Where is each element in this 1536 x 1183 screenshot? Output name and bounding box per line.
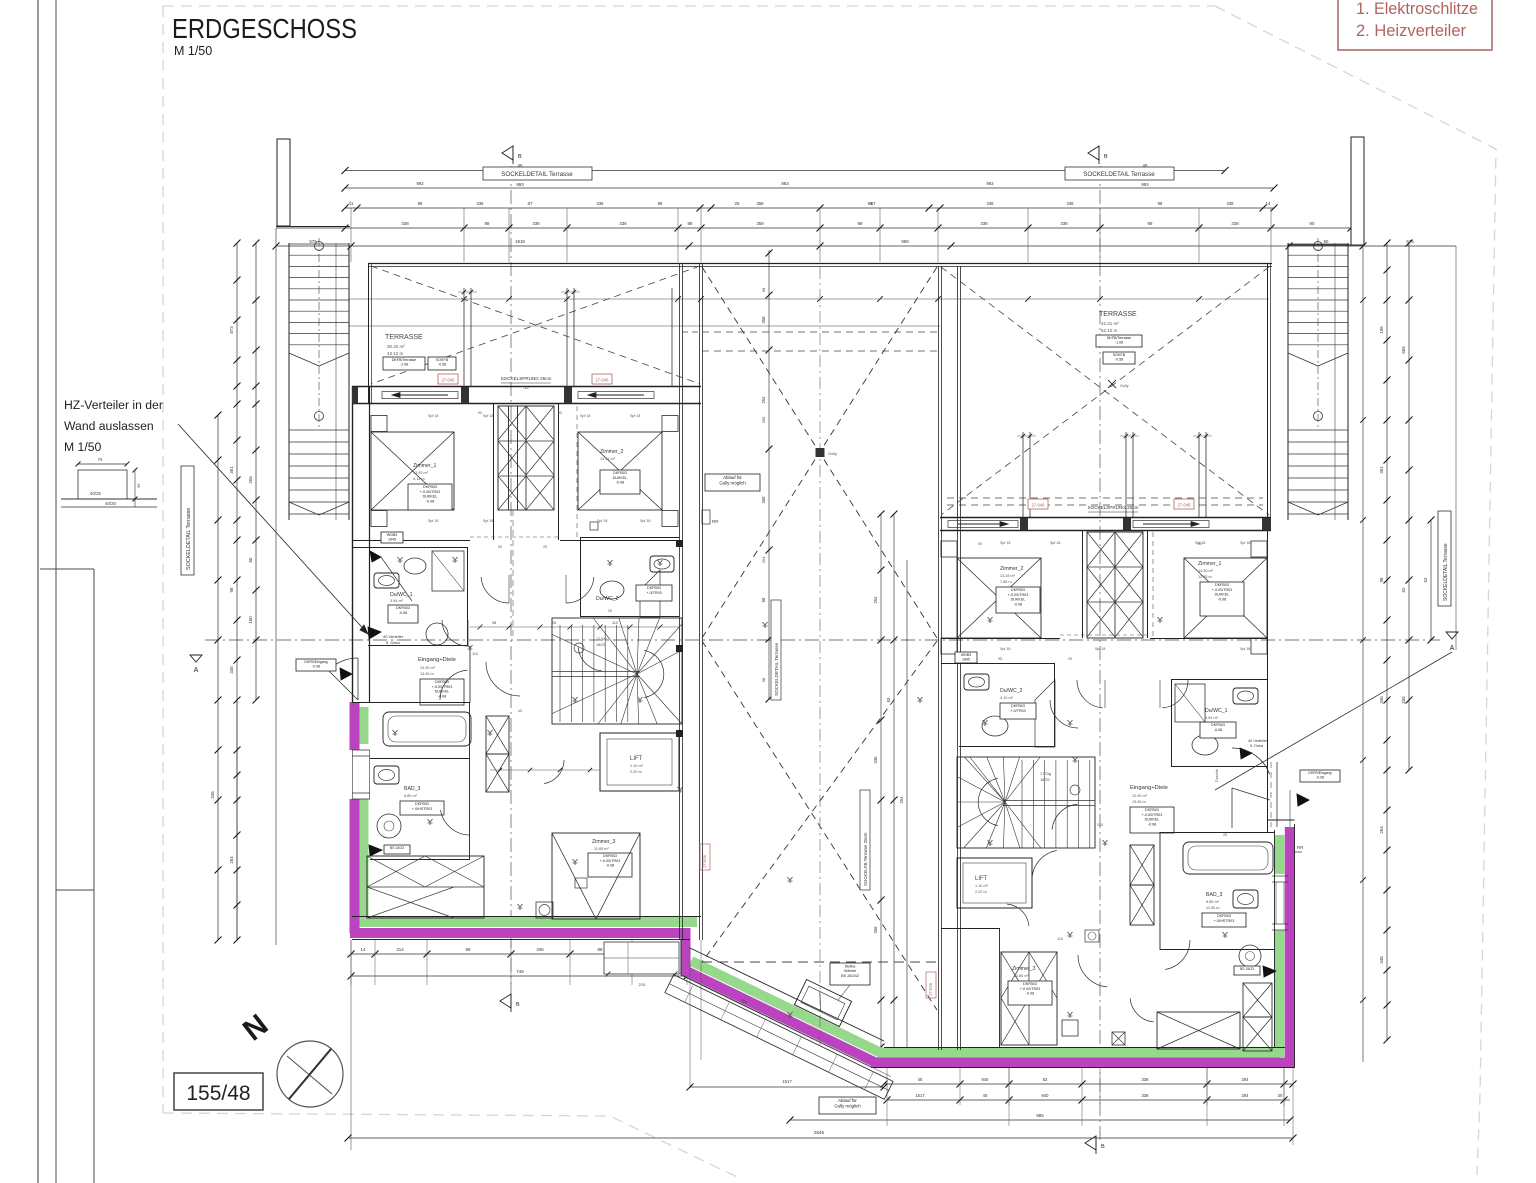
svg-text:DKFB03: DKFB03 xyxy=(423,485,437,489)
svg-text:62: 62 xyxy=(1423,577,1428,582)
svg-text:254: 254 xyxy=(1242,1093,1250,1098)
svg-text:11.85 m²: 11.85 m² xyxy=(1014,974,1029,978)
svg-text:98: 98 xyxy=(761,677,766,682)
svg-text:Gully möglich: Gully möglich xyxy=(719,480,746,485)
svg-text:993: 993 xyxy=(417,181,425,186)
svg-text:8.85 m²: 8.85 m² xyxy=(1206,900,1220,904)
svg-text:+-0/HSTR03: +-0/HSTR03 xyxy=(412,807,433,811)
svg-text:336: 336 xyxy=(532,221,540,226)
svg-text:30.32 m²: 30.32 m² xyxy=(387,344,405,349)
DKFB Eingang box right outside xyxy=(1300,770,1340,782)
svg-text:40: 40 xyxy=(518,709,522,713)
svg-text:264: 264 xyxy=(899,796,904,804)
svg-text:Gully: Gully xyxy=(1120,384,1129,388)
svg-text:18/25: 18/25 xyxy=(596,643,606,647)
svg-text:DUKKEL: DUKKEL xyxy=(435,690,450,694)
svg-text:2.20 m: 2.20 m xyxy=(630,770,642,774)
door arc DuWC1 xyxy=(442,620,468,646)
svg-text:336: 336 xyxy=(597,201,605,206)
svg-text:45: 45 xyxy=(983,1093,988,1098)
svg-text:2.20 m: 2.20 m xyxy=(975,890,987,894)
svg-text:BS 15/23: BS 15/23 xyxy=(1240,967,1254,971)
svg-text:Stufka: Stufka xyxy=(845,964,857,968)
svg-text:358: 358 xyxy=(761,316,766,324)
left unit left wall xyxy=(352,386,354,702)
svg-text:DKFB03: DKFB03 xyxy=(415,802,429,806)
arrow into DuWC1 xyxy=(370,551,381,562)
svg-text:DKFB03: DKFB03 xyxy=(1217,914,1231,918)
section line B-B right xyxy=(1099,166,1101,1140)
black wedge bad3 xyxy=(369,845,382,856)
svg-text:13.45 m: 13.45 m xyxy=(1132,800,1146,804)
svg-text:98: 98 xyxy=(418,201,423,206)
gully mark right terrace xyxy=(1108,380,1116,388)
svg-text:25: 25 xyxy=(543,545,547,549)
entrance door right unit xyxy=(1232,748,1270,774)
bottom diagonal dimension xyxy=(690,1086,884,1088)
site boundary dashed green xyxy=(163,5,1215,7)
svg-text:DKFB03: DKFB03 xyxy=(1215,583,1229,587)
svg-text:-1.08: -1.08 xyxy=(1115,341,1123,345)
svg-text:3.94 m²: 3.94 m² xyxy=(390,599,404,603)
svg-text:254: 254 xyxy=(1242,1077,1250,1082)
svg-text:110: 110 xyxy=(612,621,618,625)
svg-text:25: 25 xyxy=(1068,657,1072,661)
svg-text:-0.08: -0.08 xyxy=(1218,597,1226,601)
svg-text:DKFB/Terrasse: DKFB/Terrasse xyxy=(1107,336,1131,340)
svg-text:DKFB03: DKFB03 xyxy=(1011,704,1025,708)
top wall both terraces xyxy=(368,263,1272,265)
svg-text:993: 993 xyxy=(1141,182,1149,187)
svg-text:BS 28/242: BS 28/242 xyxy=(841,974,859,978)
svg-text:SOCKELDETAIL Terrasse: SOCKELDETAIL Terrasse xyxy=(186,508,192,570)
svg-text:361: 361 xyxy=(1379,466,1384,474)
sliding door right unit 2 xyxy=(1133,521,1209,528)
svg-text:2. Heizverteiler: 2. Heizverteiler xyxy=(1356,22,1466,40)
svg-text:863: 863 xyxy=(781,181,789,186)
section marker A right xyxy=(1446,632,1458,639)
svg-text:98: 98 xyxy=(761,597,766,602)
svg-text:160: 160 xyxy=(248,616,253,624)
LIFT left unit xyxy=(600,733,679,791)
door arc zimmer3 left xyxy=(486,662,520,696)
svg-text:-0.58: -0.58 xyxy=(1115,358,1123,362)
svg-text:DUKKEL: DUKKEL xyxy=(1215,593,1230,597)
svg-text:90: 90 xyxy=(478,411,482,415)
svg-text:Wärme: Wärme xyxy=(844,969,856,973)
sockeldetail rotated boxed label courtyard xyxy=(771,600,781,700)
svg-text:-0.08: -0.08 xyxy=(312,665,320,669)
svg-text:Spf 18: Spf 18 xyxy=(1240,541,1250,545)
svg-text:17 Stg: 17 Stg xyxy=(1040,772,1051,776)
svg-text:27-046: 27-046 xyxy=(1177,503,1191,508)
svg-text:A: A xyxy=(194,667,199,674)
svg-text:DKFB/Terrasse: DKFB/Terrasse xyxy=(392,358,416,362)
small rects lower left unit xyxy=(575,878,587,888)
dashed divider right unit xyxy=(1152,532,1154,638)
DuWC1 right fixtures xyxy=(1233,688,1258,704)
svg-text:98: 98 xyxy=(492,621,496,625)
svg-text:90: 90 xyxy=(1198,542,1202,546)
svg-text:LIFT: LIFT xyxy=(975,876,988,882)
svg-text:336: 336 xyxy=(1142,1093,1150,1098)
DuWC2 fixtures xyxy=(650,556,674,572)
page frame line left outer xyxy=(37,0,39,1183)
svg-text:98: 98 xyxy=(1158,201,1163,206)
svg-text:27-046: 27-046 xyxy=(441,378,455,383)
svg-text:993: 993 xyxy=(516,182,524,187)
sliding door left unit 2 xyxy=(578,392,654,399)
svg-text:SOKFB: SOKFB xyxy=(1113,353,1126,357)
bed zimmer3 left xyxy=(552,833,640,919)
bad3 right walls xyxy=(1160,880,1274,882)
door arc DuWC2 right xyxy=(1050,700,1078,728)
svg-text:985: 985 xyxy=(1036,1113,1044,1118)
svg-text:Spf 18: Spf 18 xyxy=(483,414,493,418)
svg-text:Spf 18: Spf 18 xyxy=(1000,541,1010,545)
svg-text:336: 336 xyxy=(536,947,544,952)
door arcs lower right unit xyxy=(1078,955,1107,987)
svg-text:336: 336 xyxy=(1142,1077,1150,1082)
svg-text:+-0.00/TR03: +-0.00/TR03 xyxy=(1142,813,1163,817)
svg-text:DKFB03: DKFB03 xyxy=(396,606,410,610)
svg-text:4.13 m: 4.13 m xyxy=(413,477,425,481)
svg-text:SOCKELDETAIL Terrasse: SOCKELDETAIL Terrasse xyxy=(501,171,573,178)
svg-text:DKFB03: DKFB03 xyxy=(613,471,627,475)
svg-text:Spf 18: Spf 18 xyxy=(1000,647,1010,651)
interior stair right unit xyxy=(957,757,1095,848)
leader from A right to entrance xyxy=(1215,652,1452,790)
DuWC2 room left unit xyxy=(580,537,679,539)
compass cross thick xyxy=(289,1049,331,1099)
bottom-right dimension row 1084 xyxy=(884,1083,1293,1085)
tilted shaft box xyxy=(794,980,851,1027)
courtyard dim verticals xyxy=(768,250,770,700)
right dimension chains xyxy=(1386,243,1388,1040)
svg-text:DKFB/Eingang: DKFB/Eingang xyxy=(304,660,327,664)
svg-text:DKFB03: DKFB03 xyxy=(1023,982,1037,986)
section arrow B bottom-left xyxy=(500,994,511,1008)
right unit bottom wall lines xyxy=(884,1047,1285,1049)
svg-text:338: 338 xyxy=(401,221,409,226)
svg-text:98: 98 xyxy=(229,587,234,592)
ramp rotated rectangle xyxy=(665,975,893,1100)
courtyard X upper xyxy=(702,267,937,638)
svg-text:1.10 m²: 1.10 m² xyxy=(975,884,989,888)
svg-text:264: 264 xyxy=(761,396,766,404)
svg-text:SOCKELFB.Terrasse 25cm: SOCKELFB.Terrasse 25cm xyxy=(863,832,868,886)
svg-text:DUKKEL: DUKKEL xyxy=(1145,818,1160,822)
svg-text:958: 958 xyxy=(901,239,909,244)
svg-text:SOCKELDETAIL Terrasse: SOCKELDETAIL Terrasse xyxy=(1083,171,1155,178)
extra door arcs left unit xyxy=(440,670,467,700)
gully mark courtyard xyxy=(816,448,825,457)
svg-text:11.90 m: 11.90 m xyxy=(1206,906,1219,910)
HZ detail drawing xyxy=(78,463,127,465)
closet left unit xyxy=(498,406,554,510)
svg-text:98: 98 xyxy=(658,201,663,206)
svg-text:98: 98 xyxy=(1379,577,1384,582)
svg-text:214: 214 xyxy=(396,947,404,952)
svg-text:SOCKELSPRUNG 25cm: SOCKELSPRUNG 25cm xyxy=(1088,505,1139,510)
bed Zimmer1 right xyxy=(1184,558,1267,638)
svg-text:-0.08: -0.08 xyxy=(438,694,446,698)
svg-text:+-0/TR03: +-0/TR03 xyxy=(1010,709,1025,713)
black pier marks left unit xyxy=(676,540,683,547)
svg-text:-0.08: -0.08 xyxy=(1014,602,1022,606)
svg-text:Gully möglich: Gully möglich xyxy=(834,1103,861,1108)
svg-text:Zimmer_1: Zimmer_1 xyxy=(1198,561,1221,567)
stair wall bar right xyxy=(1351,137,1364,245)
svg-text:1918: 1918 xyxy=(515,239,525,244)
sliding door right unit 1 xyxy=(948,521,1018,528)
svg-text:14.30 m²: 14.30 m² xyxy=(420,666,436,670)
svg-text:Dusche: Dusche xyxy=(1215,769,1219,782)
terrasse level boxes right xyxy=(1096,335,1142,347)
svg-text:358: 358 xyxy=(756,221,764,226)
DuWC2 right fixtures xyxy=(964,674,989,690)
svg-text:-0.08: -0.08 xyxy=(616,481,624,485)
svg-text:1517: 1517 xyxy=(782,1079,792,1084)
bath tub left unit xyxy=(383,712,471,746)
svg-text:7.85 m: 7.85 m xyxy=(1000,580,1012,584)
svg-text:+-0.00/TR03: +-0.00/TR03 xyxy=(1008,593,1029,597)
svg-text:264: 264 xyxy=(761,556,766,563)
svg-text:RR: RR xyxy=(712,519,719,524)
shower corner right DuWC1 xyxy=(1175,684,1205,722)
corridor wall right unit xyxy=(941,663,1055,665)
svg-text:13.93 m²: 13.93 m² xyxy=(413,471,429,475)
center pier left unit xyxy=(508,406,510,510)
svg-text:93: 93 xyxy=(886,697,891,702)
washer left unit xyxy=(536,902,553,918)
svg-text:Gully: Gully xyxy=(828,451,837,456)
bad3 right fixtures xyxy=(1233,890,1258,908)
svg-text:45: 45 xyxy=(918,1077,923,1082)
RR mark courtyard xyxy=(702,510,710,524)
svg-text:110: 110 xyxy=(472,652,478,656)
left unit room divider bedrooms bottom xyxy=(352,540,470,542)
highlighted wall green band left unit xyxy=(358,707,1280,1057)
svg-text:90: 90 xyxy=(1324,239,1329,244)
svg-text:42.21 m²: 42.21 m² xyxy=(1101,321,1119,326)
gray wall stub above right band xyxy=(1276,762,1278,827)
svg-text:DKFB03: DKFB03 xyxy=(647,586,661,590)
svg-text:264: 264 xyxy=(873,596,878,604)
section marker A left xyxy=(190,655,202,662)
svg-text:43.12 m: 43.12 m xyxy=(387,351,404,356)
svg-text:DKFB03: DKFB03 xyxy=(1145,808,1159,812)
svg-text:82: 82 xyxy=(1043,1077,1048,1082)
left unit right wall / court wall xyxy=(679,264,681,940)
svg-text:-0.08: -0.08 xyxy=(399,611,407,615)
svg-text:SOCKELSPRUNG 25cm: SOCKELSPRUNG 25cm xyxy=(501,376,552,381)
svg-text:265: 265 xyxy=(248,476,253,484)
svg-text:+-0/HSTR03: +-0/HSTR03 xyxy=(1214,919,1235,923)
window sills right wall gap xyxy=(1272,875,1288,877)
svg-text:13.41 m²: 13.41 m² xyxy=(600,457,616,461)
long extension line y326 xyxy=(349,325,940,327)
svg-text:336: 336 xyxy=(980,221,988,226)
svg-text:Spf 18: Spf 18 xyxy=(1240,647,1250,651)
door arc bad3 right xyxy=(1165,940,1190,970)
bottom-left dimension chains xyxy=(351,953,632,955)
bed Zimmer1 xyxy=(371,432,454,510)
closet right unit xyxy=(1087,532,1143,638)
sliding door left unit 1 xyxy=(382,392,458,399)
svg-text:1845: 1845 xyxy=(388,538,396,542)
svg-text:336: 336 xyxy=(987,201,995,206)
left unit top wall with sliding doors xyxy=(352,386,701,388)
svg-text:345: 345 xyxy=(1379,956,1384,964)
svg-text:Du/WC_2: Du/WC_2 xyxy=(596,596,619,602)
svg-text:BAD_3: BAD_3 xyxy=(1206,892,1223,898)
interior wall eingang-bad xyxy=(352,702,470,704)
svg-text:336: 336 xyxy=(761,416,766,423)
sockeldetail rotated boxed label courtyard 2 xyxy=(860,790,870,890)
svg-text:88: 88 xyxy=(598,947,603,952)
bed Zimmer2 right xyxy=(957,558,1041,638)
ceiling marks left unit xyxy=(398,557,401,560)
svg-text:90: 90 xyxy=(1310,221,1315,226)
svg-text:-0.08: -0.08 xyxy=(1026,992,1034,996)
svg-text:345: 345 xyxy=(210,791,215,799)
corridor walls left unit xyxy=(352,547,468,549)
svg-text:Eingang+Diele: Eingang+Diele xyxy=(1130,785,1168,791)
sockeldetail terrasse boxed label top-left xyxy=(483,167,592,180)
terrace piers left unit xyxy=(463,288,465,387)
svg-text:98: 98 xyxy=(858,221,863,226)
svg-text:50: 50 xyxy=(248,557,253,562)
svg-text:B: B xyxy=(516,1002,520,1008)
svg-text:82: 82 xyxy=(1401,587,1406,592)
svg-text:LIFT: LIFT xyxy=(630,756,643,762)
svg-text:25: 25 xyxy=(608,609,612,613)
svg-text:14: 14 xyxy=(1266,201,1271,206)
dashed lines left unit to court xyxy=(682,331,702,333)
svg-text:940: 940 xyxy=(1042,1093,1050,1098)
dashed divider Zimmer2-closet xyxy=(576,406,578,540)
svg-text:8.85 m²: 8.85 m² xyxy=(404,794,418,798)
svg-text:+-0.00/TR03: +-0.00/TR03 xyxy=(600,859,621,863)
svg-text:-0.08: -0.08 xyxy=(606,864,614,868)
red label 27-046 b xyxy=(592,374,612,384)
parcel number box 155/48 xyxy=(174,1073,263,1110)
left unit bottom wall lines xyxy=(352,916,701,918)
svg-text:748: 748 xyxy=(516,969,524,974)
column hatch left unit xyxy=(486,716,509,754)
svg-text:DUKKEL: DUKKEL xyxy=(1011,598,1026,602)
svg-text:336: 336 xyxy=(477,201,485,206)
svg-text:90: 90 xyxy=(978,542,982,546)
svg-text:WDB3: WDB3 xyxy=(961,653,971,657)
tiny square mark xyxy=(590,522,598,530)
svg-text:13.28 m²: 13.28 m² xyxy=(1000,574,1016,578)
red label 27-046 c xyxy=(1028,499,1048,509)
terrace X right unit xyxy=(941,267,1269,515)
svg-text:+-0.00/TR03: +-0.00/TR03 xyxy=(420,490,441,494)
bath tub right unit xyxy=(1183,842,1273,874)
compass cross thin xyxy=(287,1056,332,1094)
svg-text:Spf 18: Spf 18 xyxy=(428,519,438,523)
svg-text:-0.08: -0.08 xyxy=(1214,728,1222,732)
DuWC1 right room xyxy=(1171,679,1267,681)
Verteiler note black wedge xyxy=(368,627,381,639)
svg-text:336: 336 xyxy=(1401,696,1406,704)
svg-text:M 1/50: M 1/50 xyxy=(64,440,101,454)
svg-text:Spf 18: Spf 18 xyxy=(1050,541,1060,545)
right unit left wall / court wall xyxy=(938,266,940,1050)
HZ leader line xyxy=(178,424,368,634)
Ablauf box bottom xyxy=(819,1097,876,1114)
svg-text:40 Verteiler: 40 Verteiler xyxy=(383,634,404,639)
walls around right closet xyxy=(1082,530,1084,638)
svg-text:90: 90 xyxy=(558,411,562,415)
svg-text:B: B xyxy=(1101,1144,1105,1150)
svg-text:B: B xyxy=(1104,154,1108,160)
long extension line y299 xyxy=(349,298,1269,300)
nightstands Zimmer1 xyxy=(371,416,387,432)
svg-text:Spf 18: Spf 18 xyxy=(630,414,640,418)
svg-text:TERRASSE: TERRASSE xyxy=(1099,311,1137,318)
exterior stair left xyxy=(288,243,290,520)
svg-text:RR: RR xyxy=(1297,845,1304,850)
red label 27-046 d xyxy=(1174,499,1194,509)
svg-text:1. Elektroschlitze: 1. Elektroschlitze xyxy=(1356,0,1478,18)
left tall rectangle xyxy=(40,568,94,570)
svg-text:11.85 m²: 11.85 m² xyxy=(594,847,609,851)
svg-text:18/25: 18/25 xyxy=(1040,778,1050,782)
svg-text:358: 358 xyxy=(761,496,766,504)
svg-text:-0.08: -0.08 xyxy=(1316,776,1324,780)
svg-text:336: 336 xyxy=(873,756,878,764)
svg-text:110: 110 xyxy=(1057,937,1063,941)
svg-text:17 Stg: 17 Stg xyxy=(596,637,607,641)
svg-text:336: 336 xyxy=(619,221,627,226)
WDB label right xyxy=(955,652,977,663)
wardrobe bottom left unit xyxy=(367,856,484,918)
svg-text:HZ-Verteiler in der: HZ-Verteiler in der xyxy=(64,398,163,412)
svg-text:-0.08: -0.08 xyxy=(1148,822,1156,826)
mid dims lower left xyxy=(490,769,600,771)
sockeldetail terrasse boxed label top-right xyxy=(1065,167,1174,180)
LIFT right unit xyxy=(957,858,1032,908)
courtyard dashed horizontals xyxy=(702,331,937,333)
svg-text:SOKFB: SOKFB xyxy=(436,358,449,362)
extension below left unit right wall xyxy=(689,945,691,1087)
svg-text:873: 873 xyxy=(229,326,234,334)
svg-text:14: 14 xyxy=(361,947,366,952)
right terrace right wall xyxy=(1267,264,1269,832)
left unit bottom-corner wall turn xyxy=(680,940,682,976)
svg-text:DKFB03: DKFB03 xyxy=(1211,723,1225,727)
bottom-right dimension chains xyxy=(887,1099,1290,1101)
terrasse level boxes left xyxy=(383,357,425,370)
svg-text:Eingang+Diele: Eingang+Diele xyxy=(418,657,456,663)
section line B-B left xyxy=(510,166,512,1000)
section arrow B top-left xyxy=(502,146,513,160)
svg-text:Zimmer_2: Zimmer_2 xyxy=(600,449,623,455)
svg-text:98: 98 xyxy=(1148,221,1153,226)
svg-text:4.10 m²: 4.10 m² xyxy=(1000,696,1014,700)
right unit right wall lines xyxy=(1274,830,1276,1048)
DuWC2 right room xyxy=(959,669,1055,671)
svg-text:264: 264 xyxy=(1379,826,1384,834)
svg-text:BAD_3: BAD_3 xyxy=(404,786,421,792)
stufka label box xyxy=(830,963,870,985)
svg-text:5. Deka: 5. Deka xyxy=(386,640,401,645)
section arrow B bottom-right xyxy=(1085,1136,1096,1150)
